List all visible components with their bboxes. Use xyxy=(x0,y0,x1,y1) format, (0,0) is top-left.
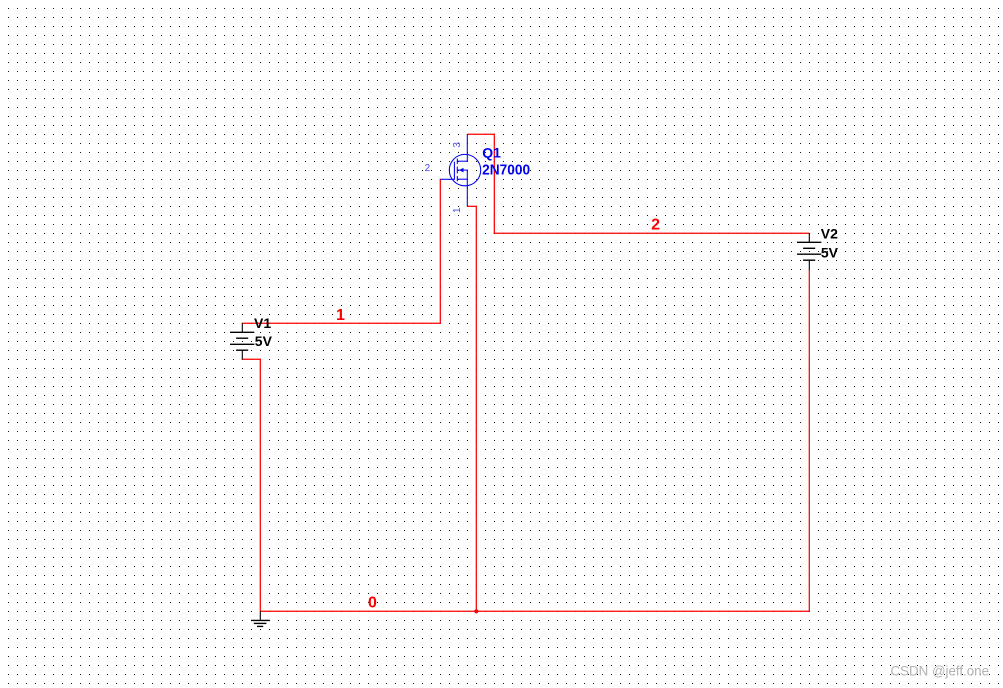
svg-text:Q1: Q1 xyxy=(482,145,501,161)
svg-text:5V: 5V xyxy=(255,333,273,349)
wire net 1 horizontal V1 to gate riser xyxy=(242,322,441,324)
svg-text:V2: V2 xyxy=(821,226,838,242)
svg-text:2: 2 xyxy=(651,217,660,234)
wire net 2 horizontal from Q1 drain xyxy=(467,133,495,135)
wire net 0 short horizontal from V1 bottom xyxy=(242,358,261,360)
svg-text:V1: V1 xyxy=(254,315,271,331)
ground xyxy=(251,611,270,626)
voltage source V2 xyxy=(797,233,821,269)
svg-text:3: 3 xyxy=(452,142,463,148)
svg-text:1: 1 xyxy=(336,307,345,324)
voltage source V1 xyxy=(230,323,254,359)
wire net 1 vertical riser to Q1 gate xyxy=(439,179,441,324)
junction dot net 0 xyxy=(474,609,478,613)
transistor Q1 2N7000 NMOS xyxy=(440,134,480,206)
svg-text:5V: 5V xyxy=(821,245,839,261)
svg-text:2: 2 xyxy=(425,163,431,174)
wire net 0 right vertical from V2 xyxy=(808,269,810,612)
wire net 2 horizontal to V2 xyxy=(494,232,810,234)
svg-text:1: 1 xyxy=(452,207,463,213)
wire net 2 vertical drop xyxy=(493,134,495,234)
svg-text:2N7000: 2N7000 xyxy=(482,161,530,178)
wire net 0 vertical source drop xyxy=(475,206,477,612)
wire net 0 bottom horizontal xyxy=(260,610,809,612)
svg-text:0: 0 xyxy=(368,595,377,612)
wire net 0 stub from Q1 source xyxy=(467,205,477,207)
svg-text:CSDN @jeff.one: CSDN @jeff.one xyxy=(891,663,990,679)
wire net 0 left vertical from V1 xyxy=(259,359,261,612)
